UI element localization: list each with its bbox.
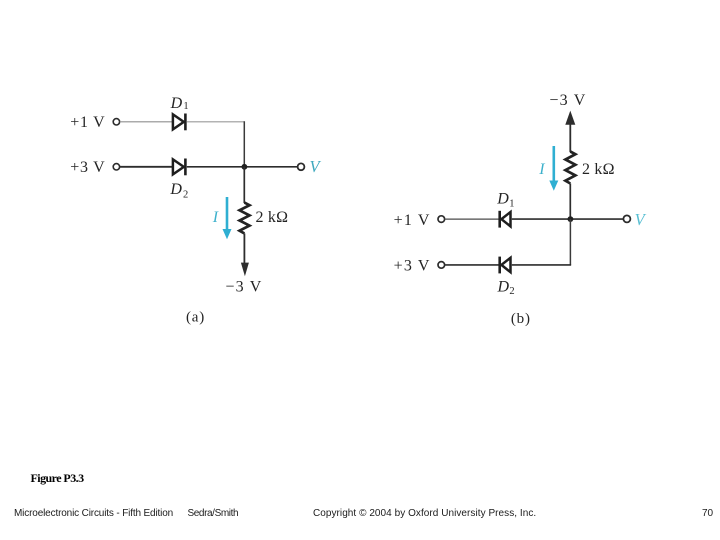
svg-text:D: D xyxy=(170,95,183,112)
svg-text:+1 V: +1 V xyxy=(70,114,105,131)
svg-text:I: I xyxy=(538,161,545,178)
wire D2 anode to vertical riser (b) xyxy=(512,264,571,266)
resistor 2k (b) xyxy=(565,152,575,184)
terminal +3 V (a) xyxy=(113,164,119,170)
diode D2 (b) cathode bar xyxy=(498,257,501,274)
wire D2 cathode to output terminal (a) xyxy=(187,166,298,168)
diode D1 (b) triangle xyxy=(501,212,510,226)
svg-text:(b): (b) xyxy=(511,311,531,327)
wire resistor bottom to arrow (a) xyxy=(243,233,245,263)
svg-text:−3 V: −3 V xyxy=(549,92,586,109)
svg-text:2 kΩ: 2 kΩ xyxy=(256,209,289,226)
output terminal V (b) xyxy=(623,215,630,222)
wire +3V terminal to D2 anode xyxy=(120,166,172,168)
svg-text:+3 V: +3 V xyxy=(394,258,431,275)
wire resistor bottom to junction (b) xyxy=(569,184,571,220)
wire +1V terminal to D1 anode xyxy=(120,121,172,123)
terminal +1 V (a) xyxy=(113,119,119,125)
diode D2 (a) triangle xyxy=(173,159,184,174)
svg-text:(a): (a) xyxy=(186,309,205,325)
svg-text:+1 V: +1 V xyxy=(394,212,431,229)
footer right: page number xyxy=(702,508,713,519)
output terminal V (a) xyxy=(298,163,305,170)
svg-text:1: 1 xyxy=(183,101,188,112)
arrowhead to -3 V (b) xyxy=(565,111,575,125)
footer: authors xyxy=(188,508,239,519)
diode D1 (a) cathode bar xyxy=(184,114,187,131)
diode D2 (b) triangle xyxy=(501,258,510,272)
wire +3V terminal to D2 cathode (b) xyxy=(445,264,499,266)
svg-text:2 kΩ: 2 kΩ xyxy=(582,161,615,178)
wire corner down to junction (a) xyxy=(243,121,245,167)
svg-text:D: D xyxy=(496,191,509,208)
svg-text:D: D xyxy=(169,181,182,198)
wire D1 cathode to corner xyxy=(187,121,245,123)
svg-text:D: D xyxy=(497,279,510,296)
current arrow I (a) xyxy=(226,197,229,230)
junction node (a) xyxy=(242,164,248,170)
wire junction to resistor top (a) xyxy=(243,167,245,203)
terminal +1 V (b) xyxy=(438,216,445,223)
svg-text:1: 1 xyxy=(509,198,514,209)
terminal +3 V (b) xyxy=(438,262,445,269)
wire +1V terminal to D1 cathode (b) xyxy=(445,218,499,220)
junction node (b) xyxy=(568,216,574,222)
resistor 2k (a) xyxy=(240,203,250,234)
wire D1 anode to output terminal (b) xyxy=(512,218,624,220)
svg-text:V: V xyxy=(635,210,647,229)
arrowhead to -3 V (a) xyxy=(241,263,249,277)
diode D2 (a) cathode bar xyxy=(184,159,187,176)
diode D1 (a) triangle xyxy=(173,114,184,129)
footer middle: copyright xyxy=(313,508,536,519)
svg-text:+3 V: +3 V xyxy=(70,159,105,176)
svg-text:−3 V: −3 V xyxy=(225,278,262,295)
footer left: book title xyxy=(14,508,173,519)
current arrow I (b) xyxy=(552,146,555,182)
figure caption xyxy=(31,471,84,486)
svg-text:2: 2 xyxy=(183,189,188,200)
svg-text:I: I xyxy=(212,209,219,226)
svg-text:V: V xyxy=(310,157,322,176)
wire junction down to +3V row (b) xyxy=(569,219,571,265)
diode D1 (b) cathode bar xyxy=(498,211,501,228)
wire -3V arrow to resistor top (b) xyxy=(569,123,571,152)
svg-text:2: 2 xyxy=(509,286,514,297)
